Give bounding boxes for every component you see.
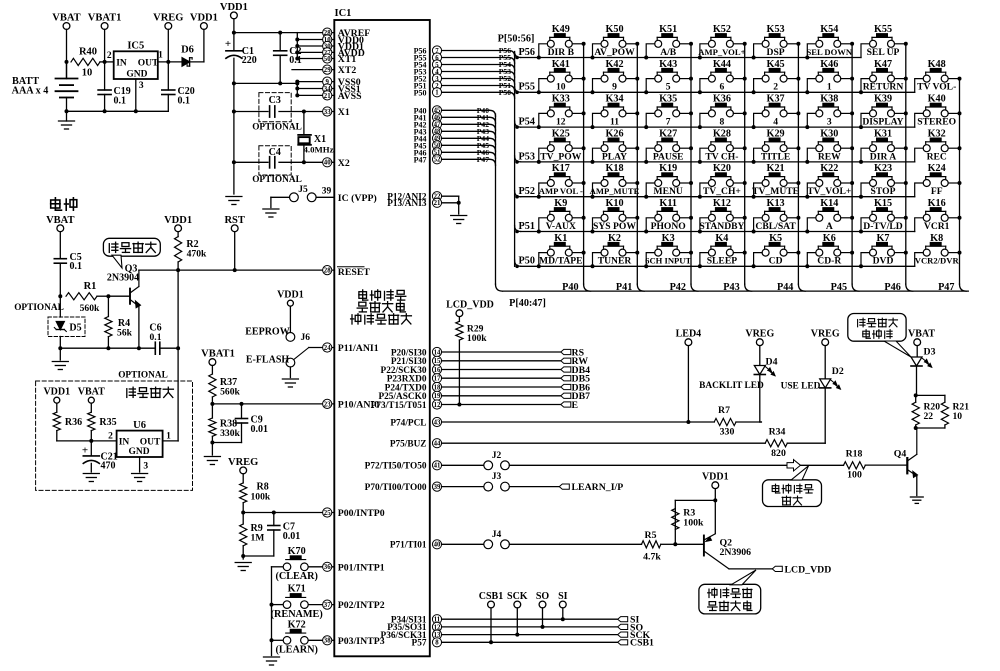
svg-text:D5: D5 xyxy=(69,323,81,334)
svg-text:VBAT1: VBAT1 xyxy=(88,13,122,24)
svg-text:P42: P42 xyxy=(670,282,686,293)
svg-text:VBAT1: VBAT1 xyxy=(201,349,235,360)
svg-text:R7: R7 xyxy=(718,405,730,416)
svg-text:X1: X1 xyxy=(338,107,350,118)
svg-text:VBAT: VBAT xyxy=(46,215,74,226)
svg-text:AAA x 4: AAA x 4 xyxy=(12,86,49,97)
svg-text:MENU: MENU xyxy=(654,186,683,197)
svg-text:4.7k: 4.7k xyxy=(643,552,661,563)
svg-text:29: 29 xyxy=(324,67,331,74)
svg-text:K2: K2 xyxy=(608,233,621,244)
svg-text:6: 6 xyxy=(720,82,725,93)
svg-text:330k: 330k xyxy=(220,428,240,439)
svg-text:SYS POW: SYS POW xyxy=(593,221,636,232)
svg-text:K31: K31 xyxy=(874,128,892,139)
svg-text:J3: J3 xyxy=(492,472,502,482)
svg-text:OPTIONAL: OPTIONAL xyxy=(252,175,302,185)
svg-text:TV_VOL+: TV_VOL+ xyxy=(807,186,851,197)
svg-text:K21: K21 xyxy=(767,163,785,174)
svg-text:56k: 56k xyxy=(117,328,133,339)
svg-text:23: 23 xyxy=(324,401,331,408)
svg-text:P41: P41 xyxy=(616,282,632,293)
svg-text:GND: GND xyxy=(126,69,147,79)
svg-text:K52: K52 xyxy=(713,24,731,35)
svg-text:39: 39 xyxy=(434,484,441,491)
svg-text:1: 1 xyxy=(435,90,439,97)
svg-text:LCD_VDD: LCD_VDD xyxy=(785,564,832,575)
svg-text:DVD: DVD xyxy=(873,256,894,267)
svg-text:VREG: VREG xyxy=(228,457,258,468)
svg-text:VBAT: VBAT xyxy=(78,387,105,398)
svg-text:K35: K35 xyxy=(659,94,677,105)
svg-text:SEL DOWN: SEL DOWN xyxy=(806,47,852,57)
svg-text:8: 8 xyxy=(435,640,439,647)
svg-text:0.1: 0.1 xyxy=(114,96,127,107)
svg-text:R40: R40 xyxy=(79,47,97,58)
svg-text:K15: K15 xyxy=(874,198,892,209)
svg-text:XT2: XT2 xyxy=(338,65,357,76)
svg-text:P00/INTP0: P00/INTP0 xyxy=(338,508,385,519)
svg-text:CSB1: CSB1 xyxy=(479,591,503,602)
svg-text:P03/INTP3: P03/INTP3 xyxy=(338,636,385,647)
svg-text:44: 44 xyxy=(434,441,441,448)
svg-text:P57: P57 xyxy=(412,639,427,649)
svg-text:K42: K42 xyxy=(605,59,623,70)
svg-text:DIR A: DIR A xyxy=(870,151,896,162)
svg-text:P47: P47 xyxy=(477,155,489,164)
svg-text:VCR2/DVR: VCR2/DVR xyxy=(915,256,960,266)
svg-text:X2: X2 xyxy=(338,158,350,169)
svg-text:VBAT: VBAT xyxy=(908,329,935,340)
svg-text:P43: P43 xyxy=(723,282,739,293)
svg-text:+: + xyxy=(82,445,88,457)
svg-text:K19: K19 xyxy=(659,163,677,174)
svg-text:K33: K33 xyxy=(552,94,570,105)
svg-text:18: 18 xyxy=(434,384,441,391)
svg-text:K20: K20 xyxy=(713,163,731,174)
svg-text:VDD1: VDD1 xyxy=(220,2,248,13)
svg-text:15: 15 xyxy=(434,358,441,365)
svg-text:E: E xyxy=(572,400,579,411)
svg-text:3: 3 xyxy=(827,117,832,128)
svg-text:K29: K29 xyxy=(767,128,785,139)
svg-text:P47: P47 xyxy=(414,155,427,164)
svg-text:K22: K22 xyxy=(820,163,838,174)
svg-text:CD-R: CD-R xyxy=(817,256,842,267)
svg-text:PAUSE: PAUSE xyxy=(653,151,684,162)
svg-text:P45: P45 xyxy=(831,282,847,293)
svg-text:K34: K34 xyxy=(605,94,623,105)
svg-text:38: 38 xyxy=(324,638,331,645)
svg-text:36: 36 xyxy=(324,564,331,571)
svg-text:K4: K4 xyxy=(715,233,728,244)
svg-text:K18: K18 xyxy=(605,163,623,174)
svg-text:K6: K6 xyxy=(823,233,836,244)
svg-text:12: 12 xyxy=(434,402,441,409)
svg-text:RESET: RESET xyxy=(338,267,371,278)
svg-text:P52: P52 xyxy=(519,186,535,197)
svg-text:39: 39 xyxy=(322,187,332,197)
svg-text:K30: K30 xyxy=(820,128,838,139)
svg-text:IC5: IC5 xyxy=(127,41,144,52)
svg-text:1M: 1M xyxy=(251,533,265,544)
svg-text:P72/TI50/TO50: P72/TI50/TO50 xyxy=(365,462,427,472)
svg-text:560k: 560k xyxy=(80,303,100,314)
svg-text:40: 40 xyxy=(434,542,441,549)
svg-text:OPTIONAL: OPTIONAL xyxy=(118,371,168,381)
svg-text:CSB1: CSB1 xyxy=(630,638,654,649)
svg-text:3: 3 xyxy=(143,462,148,472)
svg-text:DSP: DSP xyxy=(767,47,785,58)
svg-text:K7: K7 xyxy=(876,233,889,244)
svg-text:TITLE: TITLE xyxy=(761,151,790,162)
svg-text:J2: J2 xyxy=(492,451,502,461)
svg-text:AVSS: AVSS xyxy=(338,91,362,102)
svg-text:D4: D4 xyxy=(766,357,778,368)
svg-text:22: 22 xyxy=(924,411,934,422)
svg-text:P11/ANI1: P11/ANI1 xyxy=(338,343,379,354)
svg-text:IN: IN xyxy=(116,58,127,68)
svg-text:K71: K71 xyxy=(288,584,306,595)
svg-text:TV_CH+: TV_CH+ xyxy=(703,186,741,197)
svg-text:R34: R34 xyxy=(769,427,786,438)
svg-text:K45: K45 xyxy=(767,59,785,70)
svg-text:50: 50 xyxy=(324,56,331,63)
svg-text:OPTIONAL: OPTIONAL xyxy=(14,303,64,313)
svg-text:J4: J4 xyxy=(492,530,502,540)
svg-text:K72: K72 xyxy=(288,619,306,630)
svg-text:OPTIONAL: OPTIONAL xyxy=(252,122,302,132)
svg-text:K37: K37 xyxy=(767,94,785,105)
svg-text:P71/TI01: P71/TI01 xyxy=(390,541,427,551)
svg-text:4: 4 xyxy=(773,117,778,128)
svg-text:K54: K54 xyxy=(820,24,838,35)
svg-text:14: 14 xyxy=(434,349,441,356)
svg-text:3: 3 xyxy=(139,81,144,91)
svg-text:K5: K5 xyxy=(769,233,782,244)
svg-text:41: 41 xyxy=(434,463,441,470)
svg-text:2N3904: 2N3904 xyxy=(107,273,139,284)
svg-text:K24: K24 xyxy=(928,163,946,174)
svg-text:K43: K43 xyxy=(659,59,677,70)
svg-text:TV VOL-: TV VOL- xyxy=(917,82,956,93)
svg-text:A/B: A/B xyxy=(660,47,677,58)
svg-text:P50: P50 xyxy=(414,88,427,97)
svg-text:IC (VPP): IC (VPP) xyxy=(338,193,377,204)
svg-text:SLEEP: SLEEP xyxy=(707,256,738,267)
svg-text:MD/TAPE: MD/TAPE xyxy=(539,256,583,267)
svg-text:K1: K1 xyxy=(554,233,567,244)
svg-text:K26: K26 xyxy=(605,128,623,139)
svg-text:K9: K9 xyxy=(554,198,567,209)
svg-text:17: 17 xyxy=(434,376,441,383)
svg-text:25: 25 xyxy=(324,510,331,517)
svg-text:K47: K47 xyxy=(874,59,892,70)
svg-text:220: 220 xyxy=(242,55,257,66)
svg-text:P44: P44 xyxy=(777,282,793,293)
svg-text:100k: 100k xyxy=(251,492,271,503)
svg-text:VDD1: VDD1 xyxy=(702,472,729,483)
svg-text:8: 8 xyxy=(720,117,725,128)
svg-text:VDD1: VDD1 xyxy=(190,13,218,24)
svg-text:820: 820 xyxy=(771,448,786,459)
svg-text:(RENAME): (RENAME) xyxy=(271,609,323,620)
svg-text:STEREO: STEREO xyxy=(917,117,956,128)
svg-text:CBL/SAT: CBL/SAT xyxy=(755,221,796,232)
svg-text:PHONO: PHONO xyxy=(651,221,686,232)
svg-text:TV CH-: TV CH- xyxy=(705,151,738,162)
svg-text:USE LED: USE LED xyxy=(781,382,821,392)
svg-text:R5: R5 xyxy=(645,530,657,541)
svg-text:AMP VOL -: AMP VOL - xyxy=(539,186,583,196)
svg-text:33: 33 xyxy=(324,109,331,116)
svg-text:VDD1: VDD1 xyxy=(164,215,192,226)
svg-text:K50: K50 xyxy=(605,24,623,35)
svg-text:K46: K46 xyxy=(820,59,838,70)
svg-text:DISPLAY: DISPLAY xyxy=(862,117,903,128)
svg-text:P47: P47 xyxy=(938,282,954,293)
svg-text:K13: K13 xyxy=(767,198,785,209)
svg-text:0.01: 0.01 xyxy=(283,531,301,542)
svg-text:K51: K51 xyxy=(659,24,677,35)
svg-text:REC: REC xyxy=(927,151,947,162)
svg-text:K53: K53 xyxy=(767,24,785,35)
svg-text:C3: C3 xyxy=(269,95,281,106)
svg-text:P51: P51 xyxy=(519,221,535,232)
svg-text:P02/INTP2: P02/INTP2 xyxy=(338,600,385,611)
svg-text:LCD_VDD: LCD_VDD xyxy=(446,300,494,311)
svg-text:100k: 100k xyxy=(683,518,704,529)
svg-text:D2: D2 xyxy=(832,366,844,377)
svg-text:A: A xyxy=(826,221,833,232)
svg-text:0.1: 0.1 xyxy=(178,96,191,107)
svg-text:P[50:56]: P[50:56] xyxy=(498,34,535,45)
svg-text:VREG: VREG xyxy=(153,13,183,24)
svg-text:P55: P55 xyxy=(519,82,535,93)
svg-text:P74/PCL: P74/PCL xyxy=(390,418,426,428)
svg-text:2: 2 xyxy=(108,431,113,441)
svg-text:P01/INTP1: P01/INTP1 xyxy=(338,562,385,573)
svg-text:P50: P50 xyxy=(519,256,535,267)
svg-text:V-AUX: V-AUX xyxy=(546,221,576,232)
svg-text:K49: K49 xyxy=(552,24,570,35)
svg-text:STANDBY: STANDBY xyxy=(699,221,744,232)
svg-text:K39: K39 xyxy=(874,94,892,105)
svg-text:+: + xyxy=(225,38,231,50)
svg-text:1: 1 xyxy=(827,82,832,93)
svg-text:(LEARN): (LEARN) xyxy=(275,645,317,656)
svg-text:K70: K70 xyxy=(288,546,306,557)
svg-text:2: 2 xyxy=(773,82,778,93)
svg-text:REW: REW xyxy=(818,151,841,162)
svg-text:LEARN_I/P: LEARN_I/P xyxy=(572,482,624,493)
svg-text:R18: R18 xyxy=(846,449,863,460)
svg-text:K3: K3 xyxy=(662,233,675,244)
svg-text:K8: K8 xyxy=(930,233,943,244)
svg-text:100k: 100k xyxy=(467,333,487,344)
svg-text:D-TV/LD: D-TV/LD xyxy=(863,221,903,232)
svg-text:SEL UP: SEL UP xyxy=(867,47,900,58)
svg-text:K11: K11 xyxy=(659,198,677,209)
svg-text:K41: K41 xyxy=(552,59,570,70)
svg-text:Q4: Q4 xyxy=(894,449,907,460)
svg-text:X1: X1 xyxy=(314,134,326,145)
svg-text:2: 2 xyxy=(107,51,112,61)
svg-text:VBAT: VBAT xyxy=(52,13,80,24)
svg-text:19: 19 xyxy=(434,393,441,400)
svg-text:CD: CD xyxy=(769,256,783,267)
svg-text:0.1: 0.1 xyxy=(70,261,83,272)
svg-text:OUT: OUT xyxy=(138,58,159,68)
svg-text:11: 11 xyxy=(610,117,619,128)
svg-text:K38: K38 xyxy=(820,94,838,105)
svg-text:U6: U6 xyxy=(133,420,146,431)
svg-text:K44: K44 xyxy=(713,59,731,70)
svg-text:43: 43 xyxy=(434,419,441,426)
svg-text:K25: K25 xyxy=(552,128,570,139)
svg-text:9: 9 xyxy=(612,82,617,93)
svg-text:6CH INPUT: 6CH INPUT xyxy=(645,256,691,266)
svg-text:K16: K16 xyxy=(928,198,946,209)
svg-text:470: 470 xyxy=(101,461,116,472)
svg-text:16: 16 xyxy=(434,367,441,374)
svg-text:TV_MUTE: TV_MUTE xyxy=(752,186,799,197)
svg-text:P53: P53 xyxy=(519,151,535,162)
svg-text:5: 5 xyxy=(666,82,671,93)
svg-text:0.1: 0.1 xyxy=(289,55,302,66)
svg-text:D3: D3 xyxy=(924,347,936,358)
svg-text:10: 10 xyxy=(556,82,566,93)
svg-text:K17: K17 xyxy=(552,163,570,174)
svg-text:0.01: 0.01 xyxy=(251,424,269,435)
svg-text:R35: R35 xyxy=(99,417,116,428)
svg-text:28: 28 xyxy=(324,268,331,275)
svg-text:1: 1 xyxy=(166,431,171,441)
svg-text:330: 330 xyxy=(720,427,735,438)
svg-text:RETURN: RETURN xyxy=(863,82,904,93)
svg-text:TUNER: TUNER xyxy=(598,256,633,267)
svg-text:EEPROW: EEPROW xyxy=(245,327,289,338)
svg-text:D6: D6 xyxy=(181,45,194,56)
svg-text:10: 10 xyxy=(953,411,963,422)
svg-text:100: 100 xyxy=(847,470,862,481)
svg-text:37: 37 xyxy=(324,602,331,609)
svg-text:P54: P54 xyxy=(519,117,535,128)
svg-text:VDD1: VDD1 xyxy=(43,387,70,398)
svg-text:LED4: LED4 xyxy=(676,329,702,340)
svg-text:P50: P50 xyxy=(499,88,511,97)
svg-text:(CLEAR): (CLEAR) xyxy=(275,571,317,582)
svg-text:1: 1 xyxy=(158,51,163,61)
svg-text:K48: K48 xyxy=(928,59,946,70)
svg-text:BACKLIT LED: BACKLIT LED xyxy=(699,381,764,391)
svg-text:10: 10 xyxy=(82,68,93,79)
svg-text:E-FLASH: E-FLASH xyxy=(246,354,290,365)
svg-text:XT1: XT1 xyxy=(338,54,357,65)
svg-text:470k: 470k xyxy=(187,249,207,260)
svg-text:K55: K55 xyxy=(874,24,892,35)
svg-text:2N3906: 2N3906 xyxy=(720,547,752,558)
svg-text:560k: 560k xyxy=(220,387,240,398)
svg-text:P40: P40 xyxy=(562,282,578,293)
svg-text:RST: RST xyxy=(224,215,244,226)
svg-text:AV_POW: AV_POW xyxy=(594,47,635,58)
svg-text:12: 12 xyxy=(556,117,566,128)
svg-text:STOP: STOP xyxy=(871,186,896,197)
svg-text:VDD1: VDD1 xyxy=(277,290,304,301)
svg-text:DIR B: DIR B xyxy=(548,47,575,58)
svg-text:21: 21 xyxy=(324,93,331,100)
svg-text:K36: K36 xyxy=(713,94,731,105)
svg-text:24: 24 xyxy=(324,345,331,352)
svg-text:AMP_MUTE: AMP_MUTE xyxy=(590,186,640,196)
svg-text:GND: GND xyxy=(128,447,149,457)
svg-text:21: 21 xyxy=(434,200,441,207)
svg-text:K27: K27 xyxy=(659,128,677,139)
svg-text:P56: P56 xyxy=(519,47,535,58)
svg-text:AMP_VOL+: AMP_VOL+ xyxy=(698,47,745,57)
svg-text:40: 40 xyxy=(324,160,331,167)
svg-text:P[40:47]: P[40:47] xyxy=(509,298,546,309)
svg-text:SI: SI xyxy=(558,591,568,602)
svg-text:R1: R1 xyxy=(84,281,97,292)
svg-text:P46: P46 xyxy=(884,282,900,293)
svg-text:52: 52 xyxy=(434,157,441,164)
svg-text:R36: R36 xyxy=(65,417,82,428)
svg-text:P70/TI00/TO00: P70/TI00/TO00 xyxy=(365,483,427,493)
svg-text:K32: K32 xyxy=(928,128,946,139)
svg-text:FF: FF xyxy=(931,186,943,197)
svg-text:VREG: VREG xyxy=(745,329,774,340)
svg-text:PLAY: PLAY xyxy=(602,151,627,162)
svg-text:0.1: 0.1 xyxy=(150,332,162,343)
svg-text:P13/ANI3: P13/ANI3 xyxy=(387,199,427,209)
svg-text:P75/BUZ: P75/BUZ xyxy=(390,440,427,450)
svg-text:P73/T15/T051: P73/T15/T051 xyxy=(371,401,427,411)
svg-text:SCK: SCK xyxy=(507,591,528,602)
svg-text:J5: J5 xyxy=(298,185,308,195)
svg-text:IC1: IC1 xyxy=(335,8,352,19)
svg-text:J6: J6 xyxy=(300,333,310,343)
svg-text:K28: K28 xyxy=(713,128,731,139)
svg-text:K10: K10 xyxy=(605,198,623,209)
svg-text:7: 7 xyxy=(666,117,671,128)
svg-text:K40: K40 xyxy=(928,94,946,105)
svg-text:TV_POW: TV_POW xyxy=(540,151,581,162)
svg-text:K23: K23 xyxy=(874,163,892,174)
svg-text:K12: K12 xyxy=(713,198,731,209)
svg-text:VCR1: VCR1 xyxy=(924,221,950,232)
svg-text:SO: SO xyxy=(536,591,550,602)
svg-text:VREG: VREG xyxy=(811,329,840,340)
svg-text:4.0MHz: 4.0MHz xyxy=(303,145,333,155)
svg-text:K14: K14 xyxy=(820,198,838,209)
svg-text:C4: C4 xyxy=(269,147,281,158)
